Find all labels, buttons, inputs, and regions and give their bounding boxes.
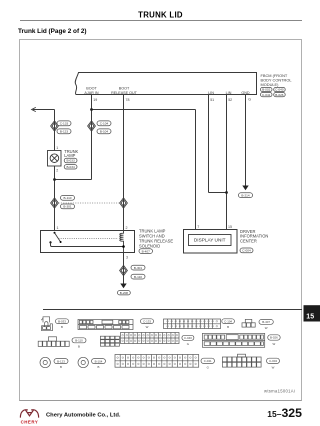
svg-text:52: 52 [228,98,232,102]
svg-text:GND: GND [241,91,250,95]
svg-text:TRUNK LID: TRUNK LID [138,11,183,20]
svg-text:C-004: C-004 [269,359,277,363]
svg-text:B-301: B-301 [63,205,72,209]
svg-text:1: 1 [56,146,58,150]
svg-text:B-407: B-407 [142,249,151,253]
svg-text:LIN: LIN [208,91,214,95]
svg-text:78: 78 [126,98,130,102]
svg-text:B-407: B-407 [262,320,270,324]
svg-text:B: B [60,365,62,369]
svg-text:B-110: B-110 [134,275,142,279]
svg-text:Trunk Lid (Page 2 of 2): Trunk Lid (Page 2 of 2) [18,28,87,35]
svg-text:C-104: C-104 [100,122,109,126]
svg-text:B-208: B-208 [120,291,129,295]
svg-text:LIN: LIN [226,91,232,95]
svg-text:15: 15 [306,313,314,320]
svg-text:C-041: C-041 [204,359,212,363]
svg-text:2: 2 [56,168,58,172]
svg-text:B-104: B-104 [100,130,109,134]
svg-text:RELEASE OUT: RELEASE OUT [111,91,138,95]
svg-text:B-104: B-104 [95,359,103,363]
svg-text:C-040: C-040 [275,88,284,92]
svg-text:B-110: B-110 [75,339,83,343]
svg-text:CHERY: CHERY [21,420,39,425]
svg-text:CENTER: CENTER [240,239,257,244]
svg-text:C-133: C-133 [143,319,151,323]
svg-text:B: B [61,325,63,329]
svg-text:B-123: B-123 [60,130,69,134]
svg-text:W: W [146,325,149,329]
svg-text:G: G [187,342,190,346]
svg-text:B-214: B-214 [241,193,250,197]
svg-text:7: 7 [197,225,199,229]
svg-text:B-034: B-034 [66,165,75,169]
svg-text:B: B [78,345,80,349]
svg-text:B: B [227,325,229,329]
svg-text:wtsma15001Ai: wtsma15001Ai [264,388,295,393]
svg-text:MODULE): MODULE) [261,82,280,87]
svg-text:B: B [98,365,100,369]
svg-text:1: 1 [57,226,59,230]
svg-text:Chery Automobile Co., Ltd.: Chery Automobile Co., Ltd. [46,413,121,419]
svg-text:51: 51 [210,98,214,102]
svg-text:2: 2 [126,226,128,230]
svg-text:G: G [207,366,210,370]
svg-text:19: 19 [93,98,97,102]
svg-text:B-123: B-123 [57,359,65,363]
svg-text:G: G [248,98,251,102]
svg-text:B-026: B-026 [270,336,278,340]
svg-text:B-033: B-033 [66,159,75,163]
svg-text:LAMP: LAMP [64,153,75,158]
svg-text:3: 3 [126,256,128,260]
svg-text:DISPLAY UNIT: DISPLAY UNIT [194,237,226,242]
svg-text:15: 15 [228,225,232,229]
svg-text:C-133: C-133 [60,122,69,126]
svg-text:C-104: C-104 [224,319,232,323]
svg-text:15–325: 15–325 [267,406,302,420]
svg-text:C-041: C-041 [262,93,271,97]
svg-text:W: W [273,342,276,346]
svg-text:W: W [265,326,268,330]
svg-text:C-040: C-040 [184,336,192,340]
svg-text:B-033: B-033 [58,319,66,323]
svg-text:W: W [272,366,275,370]
svg-text:AJAR IN: AJAR IN [84,91,98,95]
svg-text:B-002: B-002 [262,88,271,92]
svg-text:B-026: B-026 [275,93,284,97]
svg-text:C-004: C-004 [242,249,251,253]
svg-text:SOLENOID: SOLENOID [139,243,160,248]
svg-text:B-301: B-301 [134,266,143,270]
svg-text:B-110: B-110 [63,196,71,200]
